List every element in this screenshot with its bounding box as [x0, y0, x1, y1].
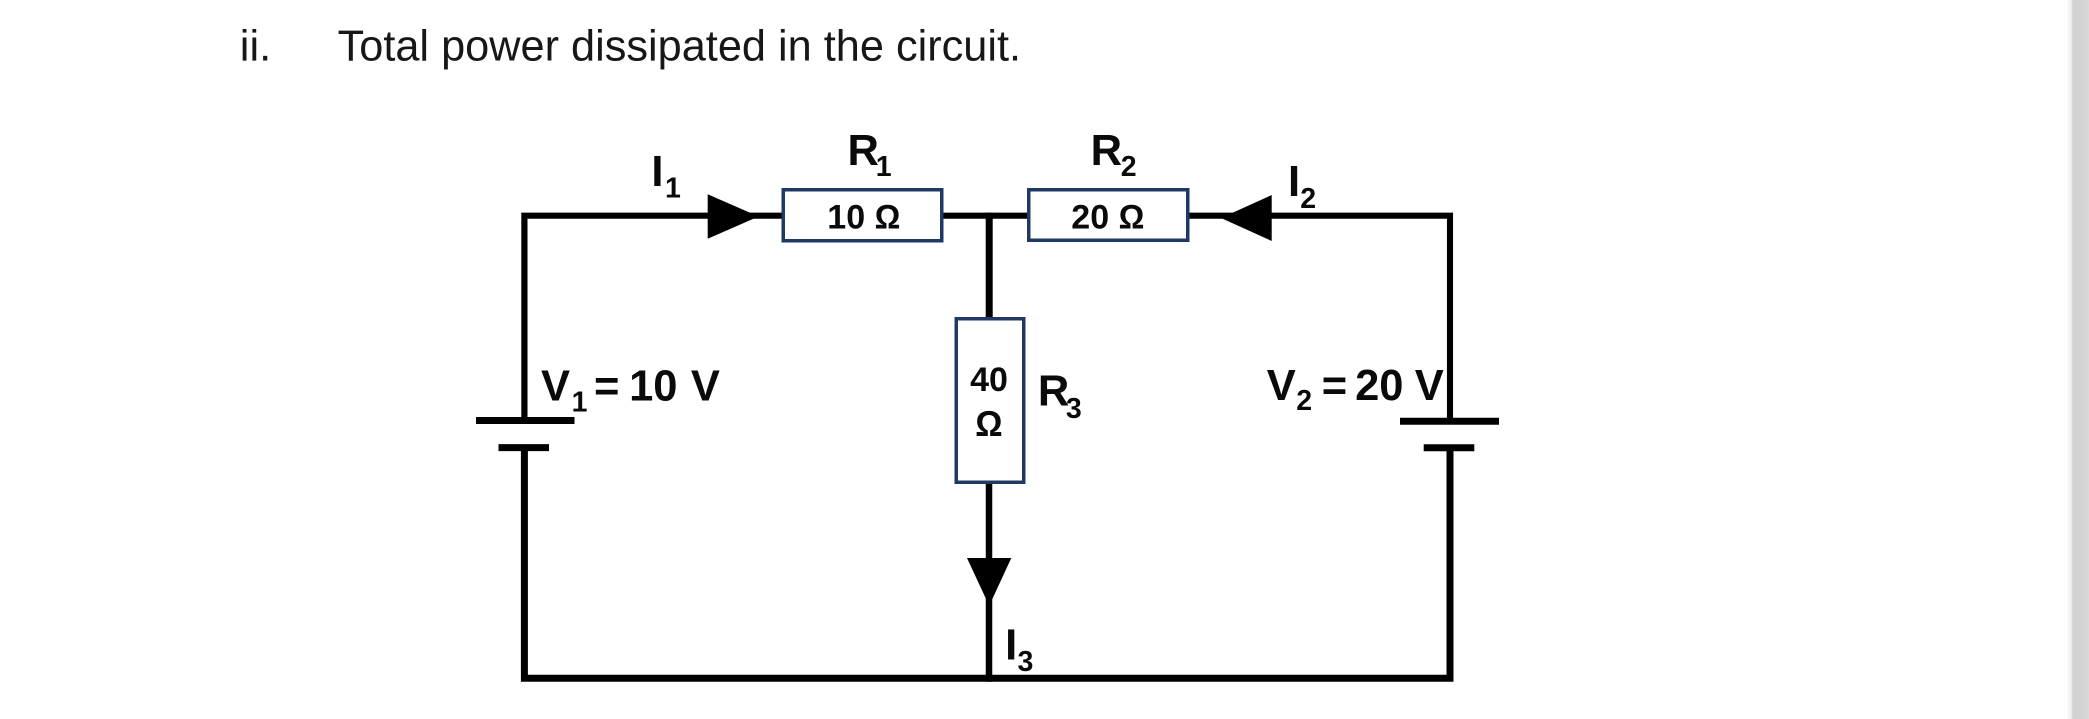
wire: between R1 and R2 through node	[941, 213, 1030, 219]
svg-text:ii.: ii.	[240, 23, 271, 71]
resistor R2 box	[1029, 190, 1188, 241]
arrow I1 (pointing right)	[708, 194, 759, 239]
svg-text:2: 2	[1121, 151, 1137, 183]
svg-text:1: 1	[572, 386, 588, 418]
svg-text:20 Ω: 20 Ω	[1071, 198, 1144, 236]
svg-text:R: R	[1091, 127, 1122, 175]
svg-text:I: I	[1288, 158, 1300, 206]
resistor R3 box	[956, 319, 1024, 483]
svg-text:3: 3	[1018, 646, 1034, 678]
svg-text:=: =	[1322, 362, 1347, 410]
battery V1 long plate	[476, 417, 575, 424]
svg-text:R: R	[848, 127, 879, 175]
svg-text:10 Ω: 10 Ω	[827, 198, 900, 236]
wire: left vertical below battery V1 + bottom wire left segment	[524, 446, 992, 678]
svg-text:20: 20	[1355, 362, 1403, 410]
svg-text:=: =	[594, 362, 619, 410]
svg-text:2: 2	[1296, 385, 1312, 417]
arrow I2 (pointing left)	[1221, 195, 1272, 241]
battery V1 short plate	[499, 444, 550, 451]
svg-text:V: V	[1415, 362, 1444, 410]
svg-text:V: V	[691, 362, 720, 410]
svg-text:V: V	[541, 362, 570, 410]
svg-text:2: 2	[1300, 183, 1316, 215]
svg-text:1: 1	[876, 151, 892, 183]
svg-text:V: V	[1267, 362, 1296, 410]
svg-text:Total power dissipated in the: Total power dissipated in the circuit.	[338, 23, 1021, 71]
svg-text:40: 40	[970, 361, 1008, 399]
wire: bottom wire right segment + right vertical up to battery V2	[986, 446, 1450, 678]
svg-text:10: 10	[629, 362, 677, 410]
arrow I3 (pointing down)	[967, 558, 1011, 606]
wire: top wire left segment + left vertical down to battery V1	[524, 216, 784, 423]
svg-text:I: I	[1005, 622, 1017, 670]
resistor R1 box	[783, 190, 942, 241]
battery V2 short plate	[1424, 444, 1475, 451]
node junction stub down from top wire to R3	[986, 213, 993, 318]
wire: below R3 down to bottom wire	[986, 483, 993, 681]
svg-text:R: R	[1038, 368, 1069, 416]
svg-text:I: I	[651, 148, 663, 196]
page right edge shading	[2064, 0, 2089, 719]
svg-text:1: 1	[665, 173, 681, 205]
battery V2 long plate	[1400, 418, 1499, 425]
wire: right vertical above battery V2 + top wire right segment	[1186, 216, 1450, 423]
svg-text:Ω: Ω	[975, 403, 1003, 444]
svg-text:3: 3	[1066, 393, 1082, 425]
